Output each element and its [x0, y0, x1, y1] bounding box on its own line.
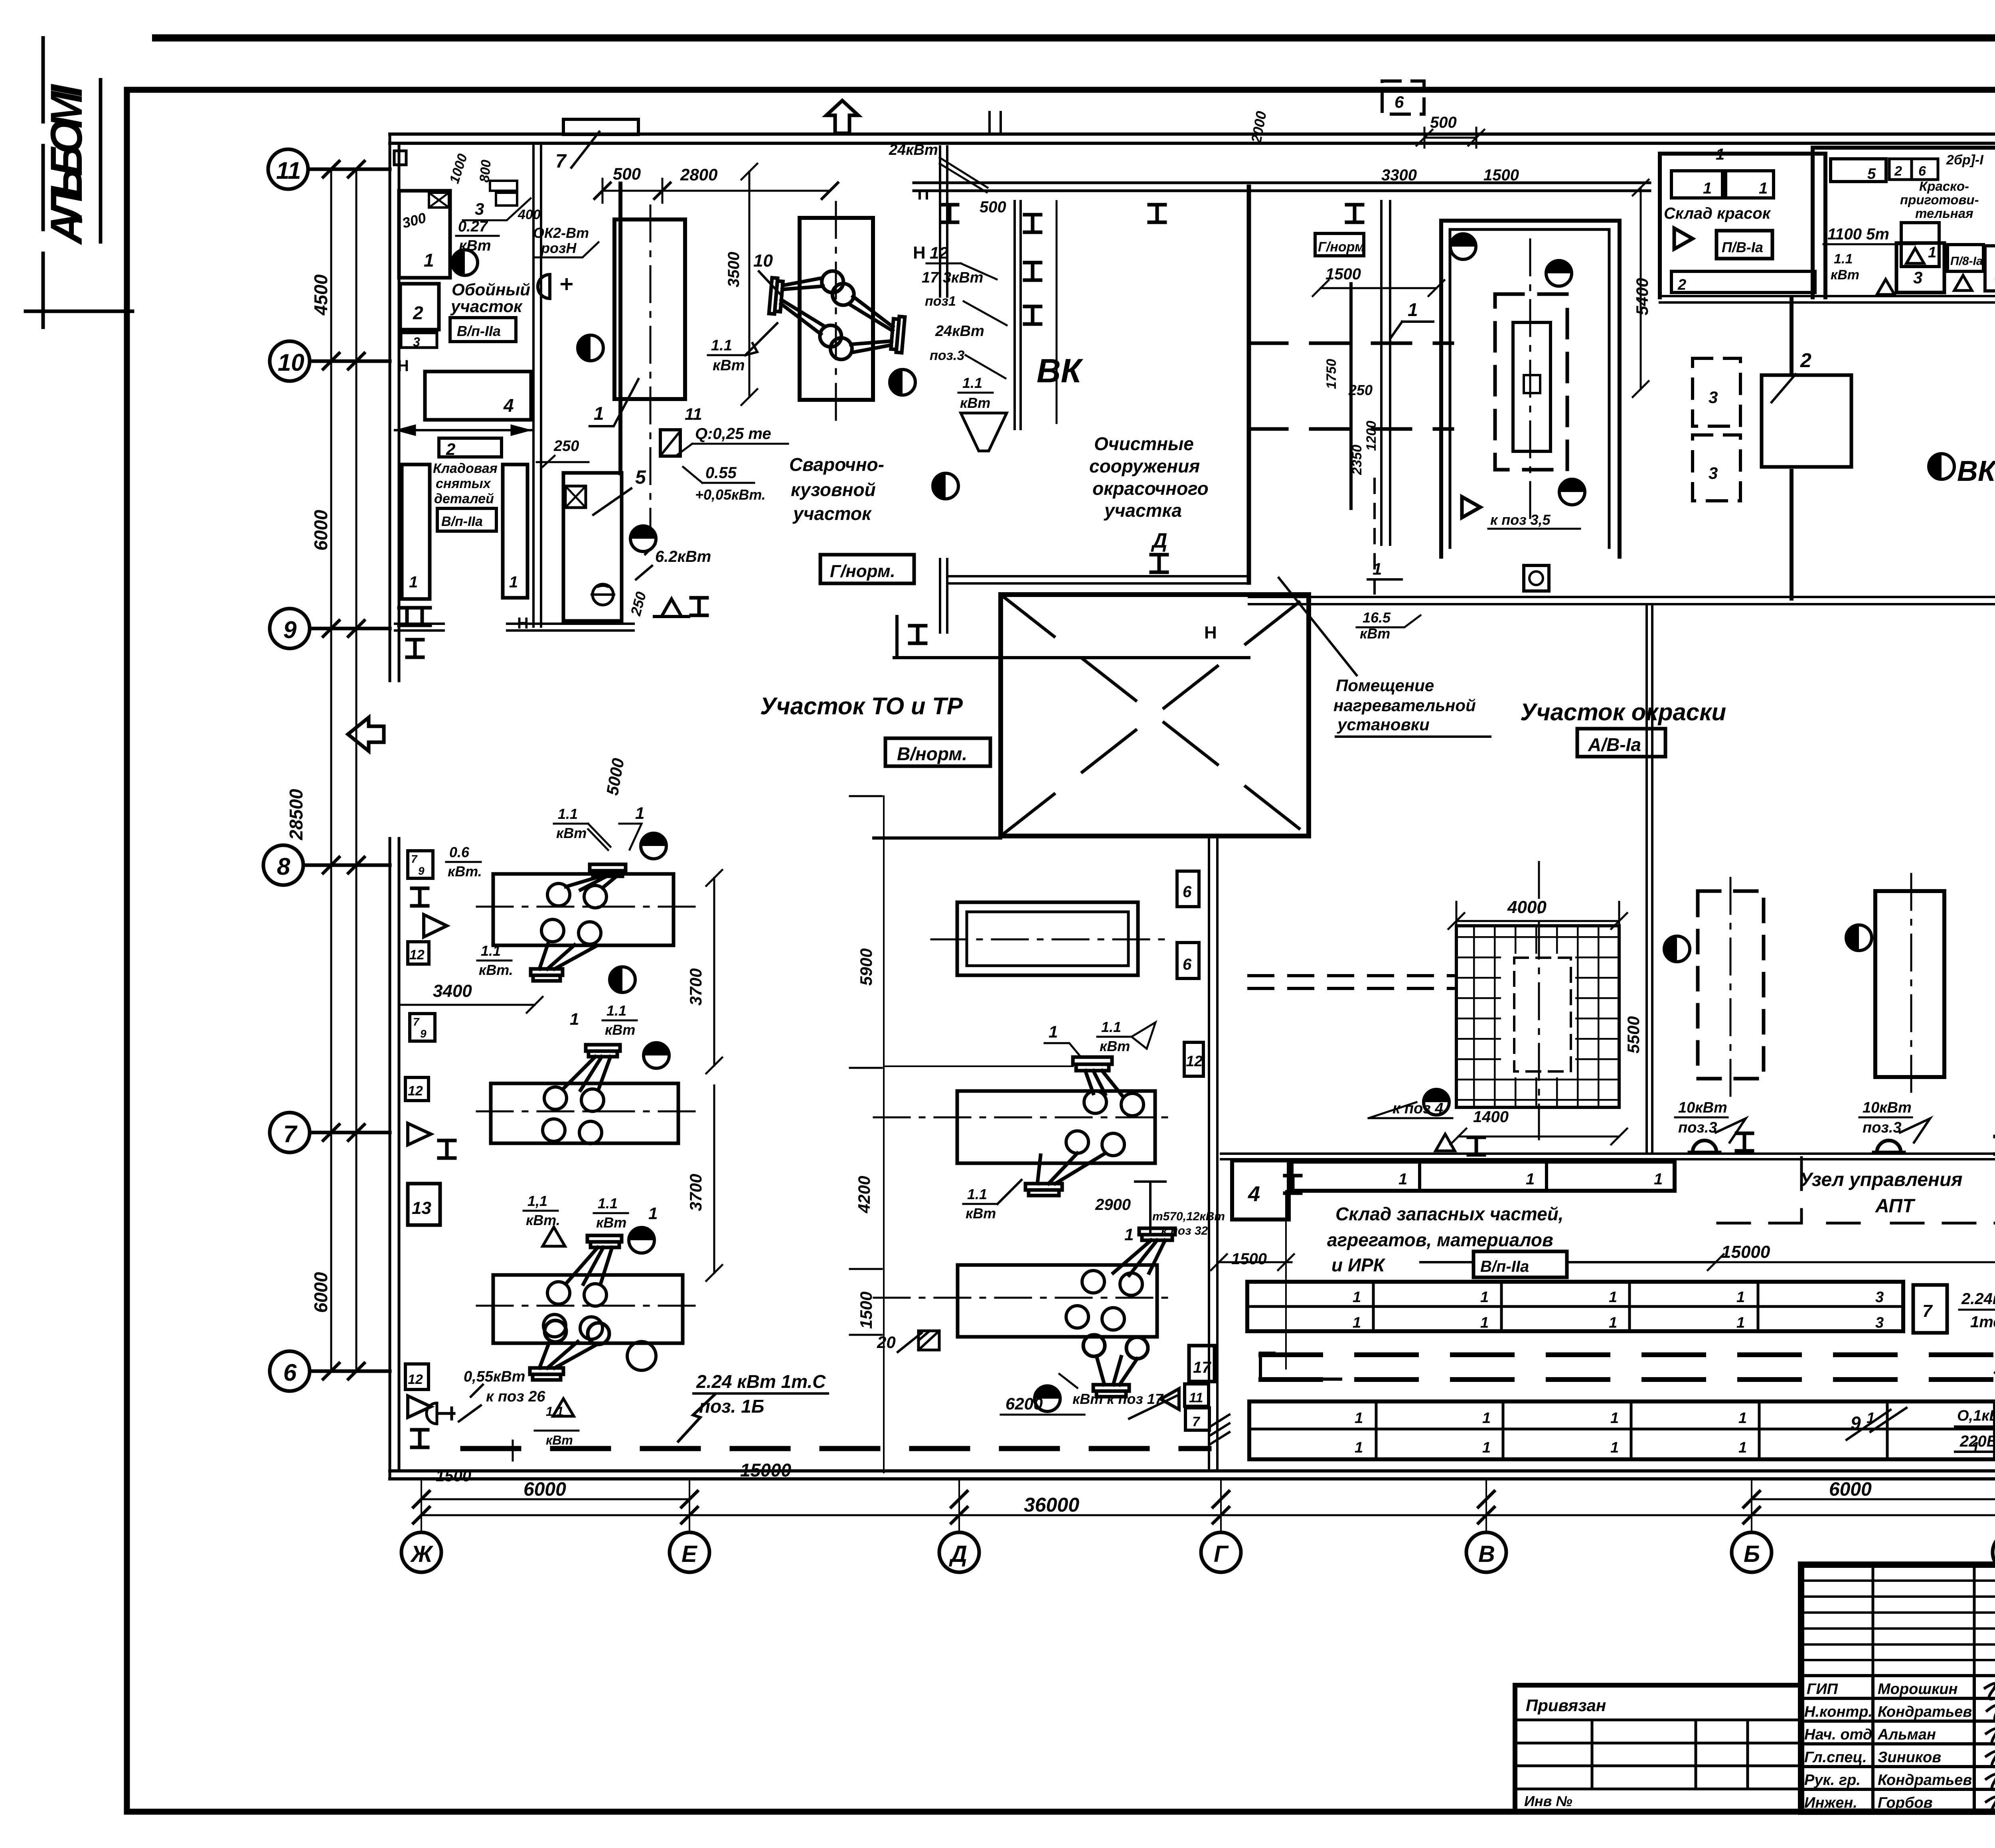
- wall triangle b: [408, 1123, 431, 1145]
- lift L4 bottom: [530, 1320, 609, 1380]
- svg-text:Склад запасных частей,: Склад запасных частей,: [1335, 1204, 1564, 1224]
- svg-text:2бр]-I: 2бр]-I: [1946, 152, 1984, 168]
- wall I beam b: [439, 1140, 455, 1158]
- svg-text:поз1: поз1: [925, 294, 956, 309]
- svg-text:1500: 1500: [1325, 265, 1361, 283]
- svg-text:1: 1: [1736, 1289, 1745, 1306]
- lift L3: [567, 1235, 622, 1284]
- svg-text:тельная: тельная: [1915, 206, 1973, 221]
- triangle near 17: [1161, 1389, 1179, 1409]
- svg-text:2350: 2350: [1349, 445, 1365, 475]
- lift R2 top: [1073, 1057, 1122, 1095]
- svg-text:500: 500: [980, 198, 1006, 216]
- svg-text:1200: 1200: [1364, 421, 1379, 451]
- svg-text:1: 1: [1482, 1439, 1491, 1456]
- triangle k poz 3,5: [1462, 497, 1480, 518]
- half lamp weld right: [890, 370, 915, 395]
- lamp L2: [644, 1043, 669, 1068]
- room edge line x2648: [1056, 201, 1058, 423]
- VK room bottom wall: [978, 576, 1249, 583]
- svg-text:Сварочно-: Сварочно-: [789, 454, 884, 475]
- svg-text:4: 4: [1248, 1182, 1260, 1206]
- svg-text:Н: Н: [517, 615, 529, 632]
- svg-text:кВт: кВт: [596, 1214, 626, 1231]
- storage counter line y2898: [1221, 1154, 1995, 1159]
- lift in weld area 1: [766, 266, 847, 348]
- svg-text:1: 1: [409, 573, 418, 591]
- lamp k poz 4: [1424, 1089, 1449, 1115]
- I beams top wall: [942, 205, 958, 222]
- heavy dashed rows: [1261, 1352, 1995, 1357]
- svg-text:6: 6: [1918, 164, 1926, 179]
- wall box 7/9 a: [408, 851, 433, 878]
- bench R3 centerline: [874, 1297, 1177, 1299]
- svg-text:кВт: кВт: [556, 825, 587, 841]
- X-room top heavy wall: [950, 576, 978, 583]
- machine centerline: [1529, 239, 1531, 519]
- svg-text:участок: участок: [792, 503, 872, 524]
- bottom dim line 36000 row: [421, 1514, 1995, 1516]
- title block: revision grid rows: [1801, 1581, 1995, 1660]
- svg-text:1: 1: [1355, 1439, 1363, 1456]
- checkered cutout: [1501, 954, 1575, 1077]
- door hatch in central wall: [1210, 1415, 1229, 1444]
- X-room left lower wall extension: [874, 836, 1001, 840]
- svg-text:Д: Д: [1151, 529, 1167, 552]
- label 12 box mid: [1184, 1042, 1203, 1076]
- equip rect 2: [400, 284, 439, 330]
- svg-text:кВт к поз 17: кВт к поз 17: [1073, 1391, 1164, 1407]
- svg-text:В/п-IIа: В/п-IIа: [457, 323, 501, 339]
- half lamp D: [538, 275, 550, 298]
- svg-text:В/норм.: В/норм.: [897, 743, 967, 764]
- svg-text:1.1: 1.1: [962, 375, 982, 391]
- svg-text:кВт: кВт: [966, 1205, 996, 1221]
- dashed box 3 lower: [1693, 435, 1740, 501]
- prep equip rect 5: [1831, 159, 1886, 182]
- svg-text:к поз 26: к поз 26: [486, 1388, 545, 1405]
- prep rect 1 right: [1901, 223, 1939, 267]
- svg-text:1.1: 1.1: [1101, 1019, 1121, 1035]
- bench R3: [958, 1265, 1157, 1337]
- storage rack 2: [503, 464, 527, 598]
- svg-text:Зиников: Зиников: [1878, 1749, 1941, 1766]
- svg-text:кВт: кВт: [605, 1022, 635, 1038]
- attachment box Привязан: [1515, 1685, 1801, 1812]
- svg-text:5: 5: [1867, 166, 1876, 182]
- axis circle 10: [270, 341, 390, 381]
- bench L3: [493, 1275, 683, 1343]
- dashed box 3 upper: [1693, 358, 1740, 426]
- svg-text:окрасочного: окрасочного: [1092, 478, 1209, 499]
- rack table 1: [1292, 1162, 1675, 1191]
- svg-text:1: 1: [1049, 1022, 1058, 1041]
- svg-text:1400: 1400: [1473, 1108, 1509, 1126]
- svg-text:5400: 5400: [1633, 278, 1651, 315]
- bench L1: [493, 874, 674, 945]
- wall x4490: [1790, 299, 1794, 599]
- svg-text:17: 17: [1193, 1359, 1211, 1376]
- svg-text:17.3кВт: 17.3кВт: [922, 269, 983, 286]
- equip square on centerline: [660, 430, 680, 456]
- svg-text:1,1: 1,1: [527, 1193, 547, 1209]
- equip rect 4: [425, 372, 531, 420]
- svg-text:кВт: кВт: [960, 395, 990, 411]
- svg-text:13: 13: [412, 1198, 431, 1218]
- svg-text:Помещение: Помещение: [1336, 676, 1434, 695]
- X-room diagonal 1: [1001, 595, 1309, 836]
- weld bench rect 2: [800, 218, 873, 400]
- bench R3 circles: [1066, 1271, 1142, 1330]
- svg-text:6: 6: [1395, 93, 1404, 111]
- axis circle 7: [270, 1113, 390, 1152]
- checkered floor: [1456, 926, 1619, 1107]
- svg-text:3700: 3700: [686, 1174, 705, 1211]
- svg-text:12: 12: [930, 243, 948, 262]
- wall triangle c + valve: [408, 1396, 431, 1417]
- half lamp weld left: [578, 335, 603, 361]
- svg-text:1: 1: [1353, 1289, 1361, 1306]
- building left wall lower: [390, 838, 399, 1479]
- cutout centerline: [1538, 862, 1540, 1139]
- svg-text:9: 9: [420, 1028, 427, 1040]
- svg-text:3: 3: [1709, 464, 1718, 482]
- wall box 12 c: [405, 1364, 429, 1389]
- svg-text:Гл.спец.: Гл.спец.: [1804, 1749, 1867, 1766]
- category box V/p-IIa sklad: [1474, 1251, 1567, 1277]
- tick 1500: [512, 1441, 514, 1461]
- svg-text:кВт.: кВт.: [448, 863, 482, 880]
- prep small boxes 2 6: [1889, 159, 1912, 180]
- inner top wall y468: [914, 183, 1650, 191]
- svg-text:2: 2: [1800, 349, 1811, 372]
- ticks dim chain right: [850, 796, 882, 1335]
- svg-text:1500: 1500: [1231, 1250, 1267, 1268]
- svg-text:1500: 1500: [436, 1467, 471, 1485]
- sheet left horizontal tick: [26, 310, 132, 313]
- svg-text:В/п-IIа: В/п-IIа: [441, 514, 483, 529]
- svg-text:10: 10: [753, 251, 773, 271]
- svg-text:Г: Г: [1214, 1541, 1229, 1567]
- svg-text:Участок окраски: Участок окраски: [1520, 699, 1726, 725]
- svg-text:1: 1: [1759, 180, 1768, 197]
- svg-text:А/В-Iа: А/В-Iа: [1588, 734, 1641, 755]
- bench R1 inner: [967, 912, 1128, 966]
- weld bench2 centerline: [835, 202, 837, 423]
- svg-text:1.1: 1.1: [606, 1002, 626, 1019]
- VK room right wall: [1247, 187, 1251, 583]
- svg-text:11: 11: [685, 405, 702, 423]
- weld bench centerline: [650, 206, 652, 537]
- wall stub above door: [990, 112, 1001, 134]
- bench L1 centerline: [477, 906, 702, 908]
- svg-text:1: 1: [1526, 1170, 1535, 1188]
- title block outer rect: [1801, 1565, 1995, 1812]
- svg-text:1.1: 1.1: [967, 1186, 987, 1202]
- dim line 3700a right: [706, 870, 722, 1073]
- small box P/V-Ia 2: [1948, 245, 1983, 271]
- corridor wall x3386: [1349, 284, 1353, 508]
- svg-text:7: 7: [413, 1016, 420, 1028]
- prep rect 4: [1985, 246, 1995, 291]
- svg-text:1.1: 1.1: [558, 806, 578, 822]
- svg-text:800: 800: [477, 159, 494, 183]
- lift L1 bottom: [531, 942, 595, 981]
- lamp L1: [641, 833, 666, 859]
- svg-text:3: 3: [413, 335, 420, 349]
- central dividing wall x3040: [1209, 836, 1217, 1471]
- axis circle Б: [1732, 1532, 1772, 1572]
- svg-text:ОК2-Вт: ОК2-Вт: [533, 225, 589, 241]
- svg-text:П/В-Iа: П/В-Iа: [1722, 239, 1763, 255]
- lamp symbol oboyny: [452, 250, 478, 275]
- svg-text:6: 6: [1183, 956, 1192, 973]
- left step bracket: [1260, 1353, 1341, 1379]
- svg-text:агрегатов, материалов: агрегатов, материалов: [1327, 1229, 1553, 1250]
- wall I beam c: [412, 1430, 428, 1447]
- triangle under box: [1954, 275, 1972, 291]
- svg-text:1: 1: [424, 250, 434, 271]
- svg-text:4000: 4000: [1507, 897, 1547, 917]
- svg-text:1: 1: [635, 804, 644, 822]
- triangles around 3: [1877, 248, 1924, 294]
- box 17: [1189, 1346, 1215, 1382]
- bottom dim ticks: [413, 1491, 1995, 1523]
- svg-text:7: 7: [411, 853, 418, 865]
- lamp heater room: [1450, 234, 1476, 259]
- left dim ticks: [323, 161, 364, 1379]
- svg-text:0.27: 0.27: [458, 218, 488, 235]
- door jamb marks: [920, 191, 927, 198]
- svg-text:0,55кВт: 0,55кВт: [464, 1368, 525, 1385]
- weld bench rect: [614, 219, 685, 399]
- box G/norm weld: [820, 555, 914, 583]
- svg-text:5900: 5900: [857, 949, 875, 986]
- small wall box top left: [394, 151, 406, 165]
- svg-text:3: 3: [1709, 388, 1718, 407]
- svg-text:3500: 3500: [725, 252, 743, 287]
- svg-text:6200: 6200: [1005, 1394, 1043, 1413]
- svg-text:Б: Б: [1744, 1541, 1760, 1567]
- svg-text:1.1: 1.1: [598, 1195, 618, 1212]
- vk2 solid rect: [1762, 375, 1851, 467]
- conveyor dashed line lower: [1249, 427, 1452, 431]
- bench L2 centerline: [477, 1111, 702, 1113]
- svg-text:1: 1: [1609, 1289, 1617, 1306]
- svg-text:4500: 4500: [310, 274, 331, 316]
- svg-text:2: 2: [1677, 277, 1686, 293]
- wall box 13: [408, 1184, 440, 1225]
- conveyor dashed line upper: [1249, 342, 1452, 345]
- triangle room5: [654, 599, 689, 617]
- X-room diagonal 2: [1001, 595, 1309, 836]
- triangle k poz4: [1436, 1134, 1455, 1151]
- svg-text:1: 1: [1373, 559, 1382, 578]
- title block: revision grid columns: [1873, 1565, 1995, 1676]
- bench L2: [491, 1083, 678, 1143]
- svg-text:6000: 6000: [310, 1272, 331, 1313]
- box P/V-Ia: [1716, 231, 1772, 259]
- svg-text:АЛЬБОМ I: АЛЬБОМ I: [41, 83, 91, 245]
- solid storage rect right: [1875, 891, 1944, 1077]
- sheet outer top border line: [156, 34, 1995, 42]
- lift L1 top: [566, 864, 626, 890]
- svg-text:Инв №: Инв №: [1524, 1793, 1572, 1809]
- svg-text:7: 7: [283, 1121, 298, 1147]
- dash line3: [1420, 1261, 1716, 1263]
- svg-text:Д: Д: [948, 1541, 967, 1567]
- svg-text:Н: Н: [913, 243, 926, 263]
- storage label 2 rect: [439, 438, 502, 457]
- svg-text:12: 12: [1186, 1053, 1203, 1070]
- lamp bottom R: [1035, 1386, 1060, 1411]
- heater below box circle: [1524, 565, 1549, 591]
- dim line weld top: [602, 179, 830, 203]
- svg-text:и ИРК: и ИРК: [1331, 1255, 1386, 1275]
- svg-text:0.6: 0.6: [449, 844, 470, 860]
- wall y750 right part: [1660, 296, 1995, 302]
- svg-text:1: 1: [1703, 180, 1712, 197]
- heater room inner wall line: [1450, 229, 1609, 547]
- svg-text:1: 1: [1738, 1439, 1747, 1456]
- I beam lower wall: [1151, 555, 1167, 572]
- svg-text:1: 1: [1610, 1439, 1619, 1456]
- dim 3700b: [706, 1085, 722, 1281]
- I beam at 1400: [1468, 1137, 1484, 1155]
- svg-text:3700: 3700: [686, 968, 705, 1006]
- lamp vk2: [1929, 454, 1954, 479]
- svg-text:1: 1: [1654, 1170, 1663, 1188]
- svg-text:20: 20: [877, 1333, 896, 1352]
- svg-text:1: 1: [509, 573, 518, 591]
- funnel shape: [961, 413, 1007, 451]
- svg-text:поз.3: поз.3: [1678, 1119, 1717, 1136]
- svg-text:Кладовая: Кладовая: [433, 461, 498, 476]
- svg-text:ВК: ВК: [1037, 352, 1084, 389]
- wall triangle a: [424, 915, 447, 937]
- attachment box grid: [1515, 1720, 1801, 1789]
- svg-text:Склад красок: Склад красок: [1664, 205, 1771, 222]
- rack table 2: [1247, 1282, 1903, 1331]
- wall box 12 a: [408, 942, 429, 964]
- svg-text:1: 1: [1124, 1225, 1134, 1244]
- svg-text:8: 8: [277, 853, 290, 880]
- wall x2365 upper: [940, 146, 947, 296]
- svg-text:7: 7: [1922, 1301, 1933, 1321]
- wall horizontal y1571 right piece: [507, 624, 634, 630]
- svg-text:7: 7: [1192, 1414, 1201, 1429]
- svg-text:1: 1: [1738, 1410, 1747, 1427]
- svg-text:В: В: [1478, 1541, 1495, 1567]
- box 7 rack2: [1913, 1285, 1947, 1333]
- small crossed box: [429, 193, 449, 208]
- axis circle А: [1993, 1532, 1995, 1572]
- svg-text:24кВт: 24кВт: [889, 142, 938, 158]
- prep room 3: [1896, 243, 1944, 293]
- svg-text:250: 250: [553, 438, 579, 455]
- svg-text:ГИП: ГИП: [1807, 1681, 1838, 1698]
- svg-text:1: 1: [594, 403, 604, 424]
- title block: signature rows: [1801, 1676, 1995, 1789]
- X-room rect: [1001, 595, 1309, 836]
- svg-text:250: 250: [1348, 382, 1373, 398]
- bottom dim line 6000 row: [421, 1498, 1995, 1500]
- svg-text:1500: 1500: [1483, 166, 1519, 184]
- svg-text:1.1: 1.1: [481, 943, 501, 959]
- svg-text:1: 1: [648, 1204, 658, 1223]
- wall vertical x1555: [618, 184, 622, 473]
- svg-text:Рук. гр.: Рук. гр.: [1804, 1772, 1861, 1789]
- I beam mid sklad: [1736, 1133, 1752, 1151]
- svg-text:Н: Н: [397, 357, 409, 375]
- svg-text:12: 12: [408, 1372, 423, 1387]
- svg-text:1: 1: [1609, 1314, 1617, 1331]
- lift R bottom: [1083, 1335, 1148, 1397]
- svg-text:3: 3: [475, 200, 484, 218]
- svg-text:кВт: кВт: [546, 1433, 573, 1447]
- svg-text:12: 12: [409, 947, 425, 963]
- svg-text:500: 500: [613, 164, 641, 183]
- svg-text:220В: 220В: [1959, 1433, 1995, 1450]
- svg-text:Е: Е: [681, 1541, 698, 1567]
- svg-text:6000: 6000: [1829, 1479, 1872, 1500]
- heater machine dashed rect: [1495, 294, 1567, 470]
- dashed storage rect mid: [1698, 891, 1764, 1079]
- triangle L3: [543, 1227, 565, 1246]
- svg-text:деталей: деталей: [434, 491, 494, 506]
- wall y1505: [1249, 597, 1995, 604]
- svg-text:+0,05кВт.: +0,05кВт.: [695, 486, 766, 503]
- lift R3: [1113, 1228, 1175, 1275]
- sheet outer left edge mark: [41, 38, 45, 327]
- dim tick line 5900: [884, 1065, 1073, 1067]
- svg-text:Морошкин: Морошкин: [1878, 1681, 1958, 1698]
- svg-text:сооружения: сооружения: [1089, 456, 1200, 476]
- svg-text:6: 6: [1183, 883, 1192, 901]
- svg-text:приготови-: приготови-: [1900, 192, 1979, 207]
- bench R2: [957, 1091, 1155, 1163]
- lift R2 bottom: [1025, 1153, 1105, 1196]
- lift L2: [563, 1045, 620, 1090]
- X-room right dashed vertical: [1307, 595, 1310, 836]
- lamp mid: [1664, 936, 1690, 962]
- svg-text:кВт.: кВт.: [479, 962, 513, 978]
- wall box 7/9 b: [410, 1014, 435, 1041]
- I beams axis9: [399, 608, 415, 625]
- svg-text:В/п-IIа: В/п-IIа: [1480, 1258, 1529, 1275]
- svg-text:АПТ: АПТ: [1875, 1196, 1916, 1217]
- signature scribbles: [1985, 1684, 1995, 1812]
- axis circle Е: [670, 1532, 709, 1572]
- rect 2 store: [1671, 271, 1815, 293]
- wall x4134: [1647, 604, 1652, 1154]
- svg-text:ВК: ВК: [1957, 455, 1995, 487]
- svg-text:поз.3: поз.3: [1863, 1119, 1902, 1136]
- svg-text:Очистные: Очистные: [1094, 433, 1194, 454]
- svg-text:Краско-: Краско-: [1919, 179, 1969, 194]
- svg-text:0.55: 0.55: [705, 464, 737, 482]
- triangle store: [1674, 228, 1693, 249]
- category box storage: [437, 508, 496, 531]
- corridor wall x3473: [1381, 201, 1390, 545]
- svg-text:1: 1: [1480, 1289, 1489, 1306]
- left dim chain line inner: [356, 169, 358, 1371]
- svg-text:1: 1: [1480, 1314, 1489, 1331]
- lamp heater2: [1559, 479, 1585, 505]
- svg-text:9: 9: [418, 865, 425, 877]
- svg-text:10кВт: 10кВт: [1678, 1099, 1727, 1116]
- svg-text:Q:0,25 те: Q:0,25 те: [695, 425, 771, 443]
